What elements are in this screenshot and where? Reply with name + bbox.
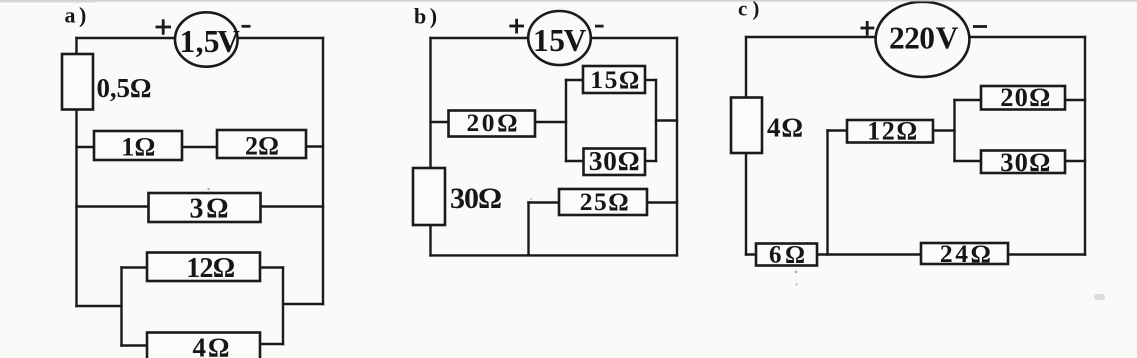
- svg-text:12Ω: 12Ω: [867, 117, 917, 146]
- svg-text:c): c): [738, 0, 764, 21]
- svg-text:1Ω: 1Ω: [121, 133, 155, 162]
- svg-text:V: V: [936, 21, 959, 56]
- svg-text:24Ω: 24Ω: [940, 239, 991, 268]
- svg-text:V: V: [564, 23, 587, 58]
- svg-text:2Ω: 2Ω: [245, 132, 279, 161]
- svg-text:30Ω: 30Ω: [589, 145, 640, 176]
- svg-text:V: V: [217, 24, 240, 59]
- svg-text:3Ω: 3Ω: [190, 194, 229, 225]
- svg-text:20Ω: 20Ω: [1000, 82, 1050, 112]
- svg-text:4Ω: 4Ω: [767, 113, 803, 143]
- svg-text:15: 15: [533, 23, 565, 58]
- svg-text:220: 220: [889, 21, 935, 56]
- svg-text:6Ω: 6Ω: [769, 242, 805, 269]
- svg-text:30Ω: 30Ω: [1000, 147, 1050, 177]
- svg-text:12Ω: 12Ω: [186, 253, 235, 284]
- svg-text:1,5: 1,5: [180, 24, 220, 59]
- svg-text:15Ω: 15Ω: [590, 65, 639, 94]
- svg-text:4Ω: 4Ω: [193, 333, 230, 358]
- svg-text:a): a): [65, 3, 90, 28]
- svg-text:30Ω: 30Ω: [450, 182, 502, 215]
- svg-text:25Ω: 25Ω: [580, 187, 629, 216]
- svg-text:b): b): [414, 4, 441, 29]
- svg-text:0,5Ω: 0,5Ω: [97, 73, 152, 103]
- svg-text:20Ω: 20Ω: [467, 108, 518, 137]
